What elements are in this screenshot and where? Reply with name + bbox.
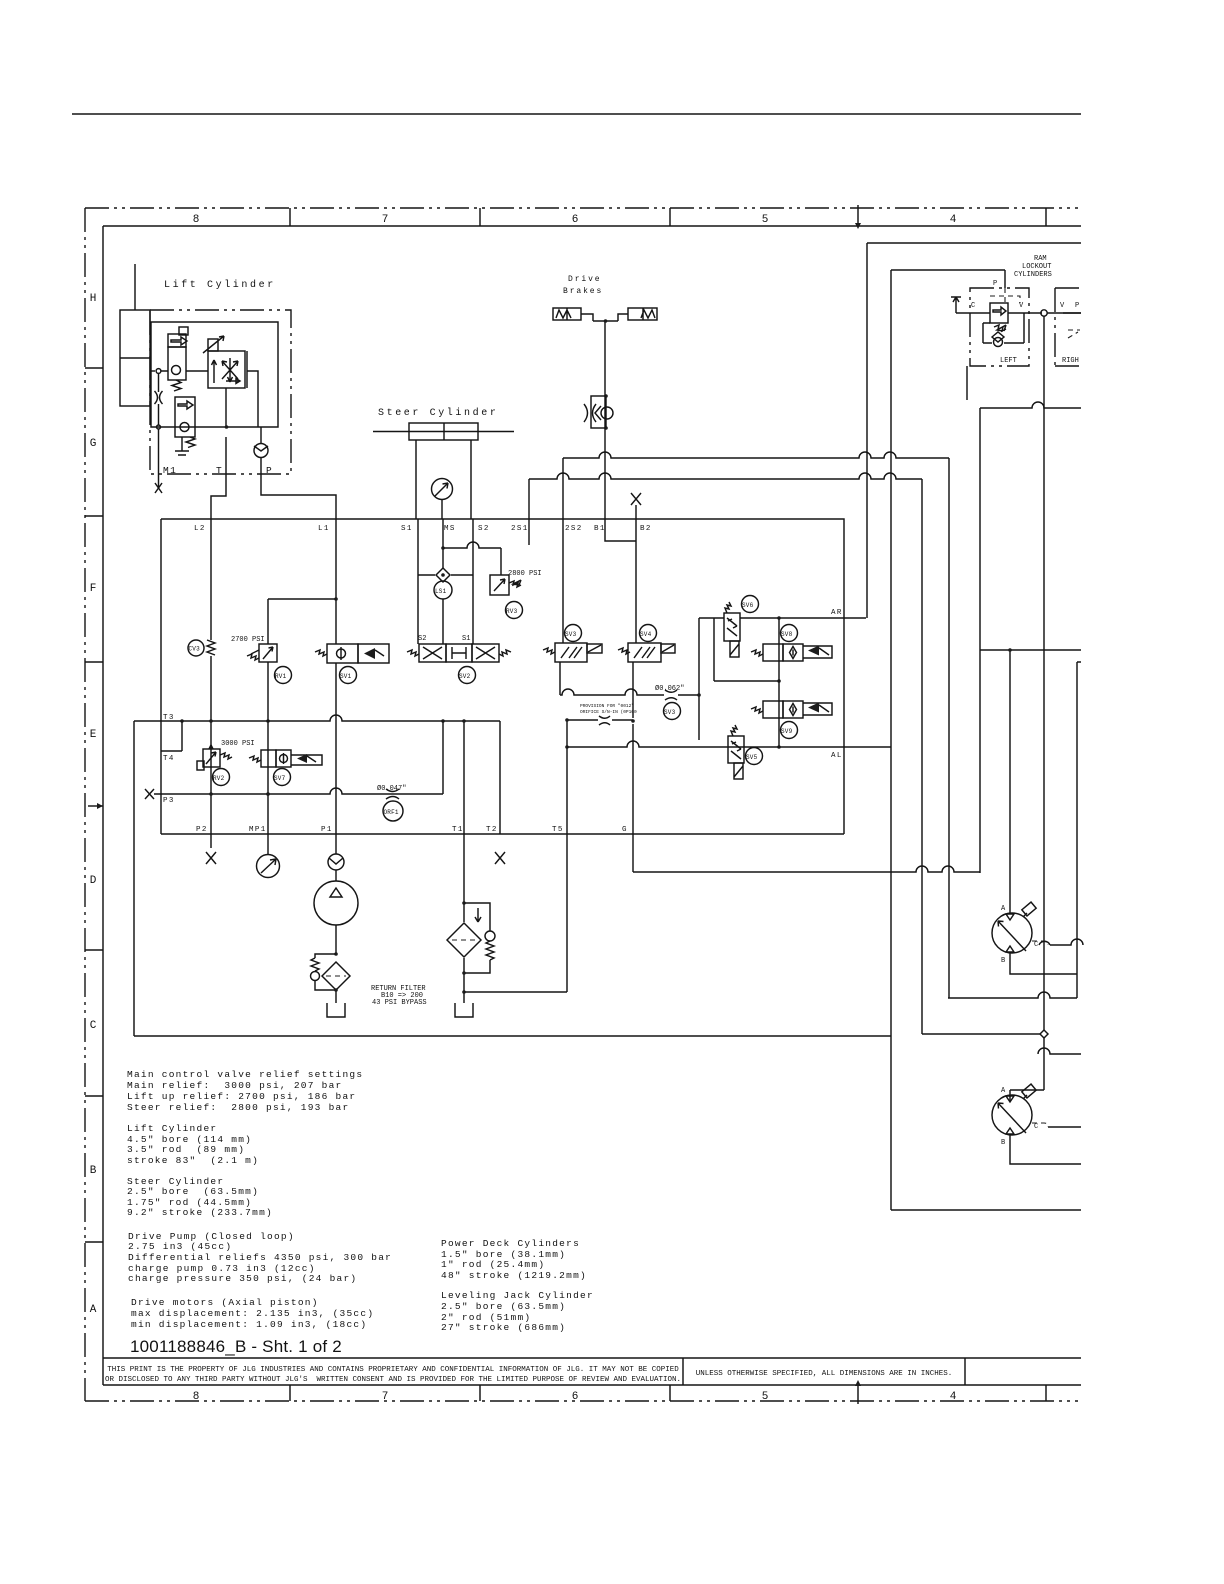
svg-text:5: 5 <box>762 214 769 226</box>
svg-text:7: 7 <box>382 1391 389 1403</box>
svg-text:Steer Cylinder: Steer Cylinder <box>378 407 498 419</box>
svg-text:CYLINDERS: CYLINDERS <box>1014 271 1052 279</box>
svg-text:S1: S1 <box>401 525 413 533</box>
svg-text:Ø0.062": Ø0.062" <box>655 684 684 693</box>
svg-text:D: D <box>90 875 97 887</box>
svg-text:2700 PSI: 2700 PSI <box>231 636 265 644</box>
svg-text:P2: P2 <box>196 826 208 834</box>
svg-text:3000 PSI: 3000 PSI <box>221 740 255 748</box>
svg-text:Main control valve relief sett: Main control valve relief settings <box>127 1069 363 1080</box>
svg-text:P: P <box>1075 302 1079 310</box>
svg-text:L1: L1 <box>318 525 330 533</box>
svg-text:C: C <box>971 302 975 310</box>
svg-text:C: C <box>1034 1123 1038 1131</box>
svg-text:LS1: LS1 <box>435 588 447 595</box>
svg-text:ORF1: ORF1 <box>384 809 399 816</box>
svg-text:4: 4 <box>950 214 957 226</box>
svg-text:PROVISION FOR "0012": PROVISION FOR "0012" <box>580 703 634 709</box>
svg-text:SV3: SV3 <box>664 709 676 716</box>
svg-text:MS: MS <box>444 525 456 533</box>
svg-text:SV7: SV7 <box>274 775 286 782</box>
svg-text:2800 PSI: 2800 PSI <box>508 570 542 578</box>
svg-text:SV5: SV5 <box>746 754 758 761</box>
svg-text:B2: B2 <box>640 525 652 533</box>
svg-text:P3: P3 <box>163 797 175 805</box>
svg-text:1001188846_B - Sht. 1 of 2: 1001188846_B - Sht. 1 of 2 <box>130 1337 342 1356</box>
svg-text:A: A <box>90 1304 97 1316</box>
svg-text:T: T <box>216 465 223 476</box>
svg-text:stroke 83" (2.1 m): stroke 83" (2.1 m) <box>127 1155 259 1166</box>
svg-text:THIS PRINT IS THE PROPERTY OF: THIS PRINT IS THE PROPERTY OF JLG INDUST… <box>107 1366 679 1374</box>
svg-text:AL: AL <box>831 752 843 760</box>
svg-text:Differential reliefs 4350 psi,: Differential reliefs 4350 psi, 300 bar <box>128 1252 392 1263</box>
svg-text:Leveling Jack Cylinder: Leveling Jack Cylinder <box>441 1290 594 1301</box>
svg-text:F: F <box>90 583 97 595</box>
svg-text:S1: S1 <box>462 635 470 643</box>
svg-text:RIGH: RIGH <box>1062 357 1079 365</box>
svg-text:A: A <box>1001 905 1006 913</box>
svg-text:SV2: SV2 <box>459 673 471 680</box>
svg-text:L2: L2 <box>194 525 206 533</box>
svg-text:G: G <box>90 438 97 450</box>
svg-text:T1: T1 <box>452 826 464 834</box>
svg-text:T2: T2 <box>486 826 498 834</box>
svg-text:OR DISCLOSED TO ANY THIRD PART: OR DISCLOSED TO ANY THIRD PARTY WITHOUT … <box>105 1376 681 1384</box>
svg-text:P: P <box>266 465 273 476</box>
svg-text:S2: S2 <box>418 635 426 643</box>
svg-text:max displacement: 2.135 in3, (: max displacement: 2.135 in3, (35cc) <box>131 1308 374 1319</box>
svg-text:ORIFICE S/N-IN (0P160: ORIFICE S/N-IN (0P160 <box>580 709 637 715</box>
svg-text:2.75 in3 (45cc): 2.75 in3 (45cc) <box>128 1241 232 1252</box>
svg-text:C: C <box>90 1020 97 1032</box>
svg-text:Power Deck Cylinders: Power Deck Cylinders <box>441 1238 580 1249</box>
svg-text:Steer relief: 2800 psi, 193 b: Steer relief: 2800 psi, 193 bar <box>127 1102 349 1113</box>
svg-text:SV9: SV9 <box>781 728 793 735</box>
svg-text:3.5" rod (89 mm): 3.5" rod (89 mm) <box>127 1144 245 1155</box>
svg-text:1" rod (25.4mm): 1" rod (25.4mm) <box>441 1259 545 1270</box>
svg-text:P1: P1 <box>321 826 333 834</box>
svg-text:B: B <box>90 1165 97 1177</box>
svg-text:C: C <box>1034 941 1038 949</box>
svg-text:RAM: RAM <box>1034 255 1047 263</box>
svg-text:S2: S2 <box>478 525 490 533</box>
svg-text:V: V <box>1060 302 1065 310</box>
svg-text:2S1: 2S1 <box>511 525 529 533</box>
svg-text:43 PSI BYPASS: 43 PSI BYPASS <box>372 999 427 1007</box>
svg-text:E: E <box>90 729 97 741</box>
svg-text:P: P <box>993 280 997 288</box>
svg-text:48" stroke (1219.2mm): 48" stroke (1219.2mm) <box>441 1270 587 1281</box>
svg-text:Main relief: 3000 psi, 207 ba: Main relief: 3000 psi, 207 bar <box>127 1080 342 1091</box>
svg-text:8: 8 <box>193 1391 200 1403</box>
svg-text:6: 6 <box>572 214 579 226</box>
svg-text:A: A <box>1001 1087 1006 1095</box>
svg-text:Lift up relief: 2700 psi, 186: Lift up relief: 2700 psi, 186 bar <box>127 1091 356 1102</box>
svg-text:8: 8 <box>193 214 200 226</box>
svg-text:charge pressure 350 psi, (24 b: charge pressure 350 psi, (24 bar) <box>128 1273 357 1284</box>
svg-text:Lift Cylinder: Lift Cylinder <box>164 279 276 291</box>
svg-text:MP1: MP1 <box>249 826 267 834</box>
svg-text:Brakes: Brakes <box>563 287 603 296</box>
svg-text:4: 4 <box>950 1391 957 1403</box>
svg-text:LOCKOUT: LOCKOUT <box>1022 263 1051 271</box>
svg-text:CV3: CV3 <box>189 646 201 653</box>
svg-text:2.5" bore (63.5mm): 2.5" bore (63.5mm) <box>441 1301 566 1312</box>
svg-text:7: 7 <box>382 214 389 226</box>
svg-text:5: 5 <box>762 1391 769 1403</box>
svg-text:B: B <box>1001 957 1005 965</box>
svg-text:Drive: Drive <box>568 275 602 284</box>
svg-text:B: B <box>1001 1139 1005 1147</box>
svg-text:UNLESS OTHERWISE SPECIFIED, AL: UNLESS OTHERWISE SPECIFIED, ALL DIMENSIO… <box>696 1370 953 1378</box>
svg-text:SV3: SV3 <box>565 631 577 638</box>
svg-text:SV8: SV8 <box>781 631 793 638</box>
svg-text:SV6: SV6 <box>742 602 754 609</box>
svg-text:min displacement: 1.09 in3, (1: min displacement: 1.09 in3, (18cc) <box>131 1319 367 1330</box>
svg-text:Lift Cylinder: Lift Cylinder <box>127 1123 217 1134</box>
svg-text:AR: AR <box>831 609 843 617</box>
svg-text:H: H <box>90 293 97 305</box>
svg-text:RV3: RV3 <box>506 608 518 615</box>
svg-text:SV4: SV4 <box>640 631 652 638</box>
svg-text:27" stroke (686mm): 27" stroke (686mm) <box>441 1322 566 1333</box>
svg-text:M1: M1 <box>163 465 177 476</box>
svg-text:RV1: RV1 <box>275 673 287 680</box>
svg-text:LEFT: LEFT <box>1000 357 1017 365</box>
svg-text:SV1: SV1 <box>340 673 352 680</box>
svg-text:B1: B1 <box>594 525 606 533</box>
svg-text:G: G <box>622 826 628 834</box>
svg-text:T4: T4 <box>163 755 175 763</box>
svg-text:Drive motors (Axial piston): Drive motors (Axial piston) <box>131 1297 319 1308</box>
svg-text:6: 6 <box>572 1391 579 1403</box>
svg-text:RV2: RV2 <box>213 775 225 782</box>
svg-text:2S2: 2S2 <box>565 525 583 533</box>
svg-text:9.2" stroke (233.7mm): 9.2" stroke (233.7mm) <box>127 1207 273 1218</box>
svg-text:T5: T5 <box>552 826 564 834</box>
svg-text:V: V <box>1019 302 1024 310</box>
svg-text:2.5" bore (63.5mm): 2.5" bore (63.5mm) <box>127 1186 259 1197</box>
